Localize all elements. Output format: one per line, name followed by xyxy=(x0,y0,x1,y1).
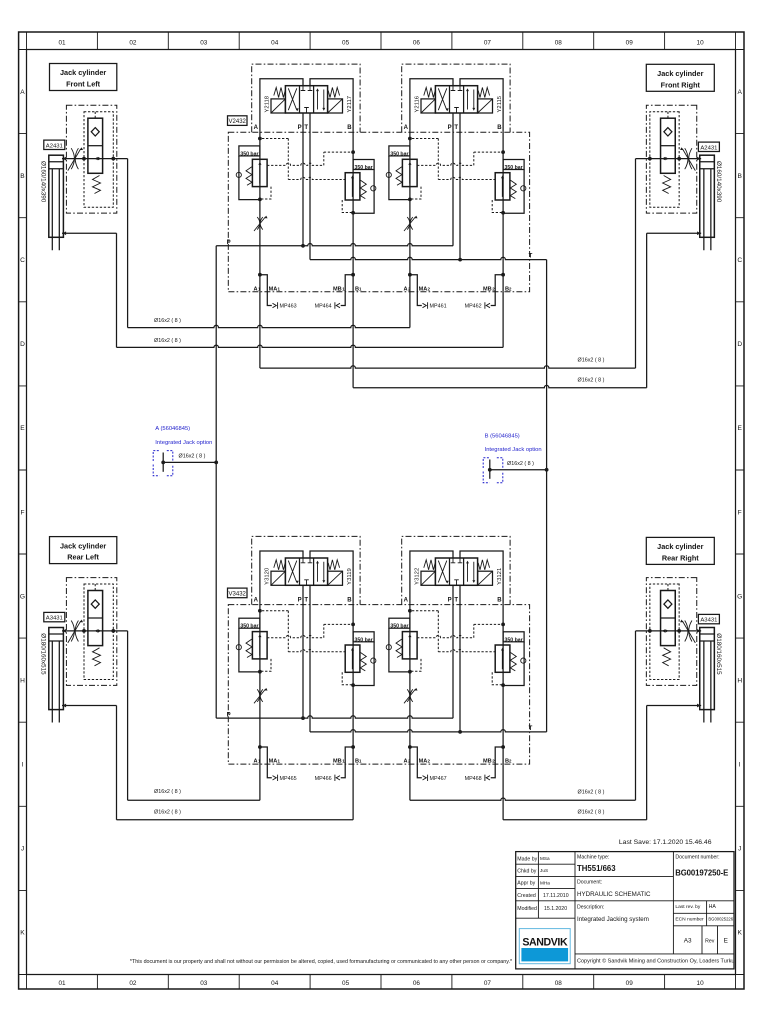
wire: A1 port drop rear xyxy=(259,764,261,800)
svg-text:BG00197250-E: BG00197250-E xyxy=(675,869,728,878)
svg-text:A: A xyxy=(254,125,259,131)
title block table xyxy=(516,852,734,969)
svg-text:*This document is our property: *This document is our property and shall… xyxy=(130,959,512,965)
svg-text:Ø180/160x515: Ø180/160x515 xyxy=(40,633,47,675)
svg-text:06: 06 xyxy=(413,980,421,987)
svg-text:Rear Right: Rear Right xyxy=(662,554,699,563)
wire: option A connection xyxy=(163,461,216,463)
svg-text:A: A xyxy=(253,286,257,292)
svg-text:HYDRAULIC SCHEMATIC: HYDRAULIC SCHEMATIC xyxy=(577,891,651,898)
valve section 2 front xyxy=(386,64,526,309)
svg-text:T: T xyxy=(529,726,533,732)
wire: line B1 to rear-left cylinder rod xyxy=(117,819,354,821)
svg-text:V2432: V2432 xyxy=(229,119,247,125)
svg-text:Jack cylinder: Jack cylinder xyxy=(657,69,703,78)
svg-text:01: 01 xyxy=(58,39,66,46)
svg-text:Y3120: Y3120 xyxy=(265,567,271,585)
svg-text:F: F xyxy=(20,509,24,516)
SANDVIK logo xyxy=(519,929,570,964)
svg-text:MP465: MP465 xyxy=(280,776,297,782)
svg-text:A2431: A2431 xyxy=(700,145,717,151)
svg-text:03: 03 xyxy=(200,39,208,46)
svg-text:A3431: A3431 xyxy=(700,618,717,624)
svg-text:350 bar: 350 bar xyxy=(390,151,408,157)
title box front left xyxy=(50,64,117,91)
wire: line B2 to rear-right cylinder rod xyxy=(503,819,647,821)
wire: P supply vertical xyxy=(215,246,217,718)
svg-text:K: K xyxy=(737,930,742,937)
svg-text:JuS: JuS xyxy=(540,868,548,873)
svg-text:03: 03 xyxy=(200,980,208,987)
svg-text:G: G xyxy=(737,593,742,600)
T manifold rear xyxy=(310,730,547,732)
svg-text:MB: MB xyxy=(483,286,492,292)
valve block enclosure front xyxy=(228,132,529,291)
svg-text:B: B xyxy=(20,173,25,180)
label A3431 rear right xyxy=(698,614,719,623)
svg-text:MB: MB xyxy=(333,759,342,765)
label A2431 front right xyxy=(698,142,719,151)
svg-text:04: 04 xyxy=(271,980,279,987)
svg-text:G: G xyxy=(20,593,25,600)
svg-text:MP467: MP467 xyxy=(430,776,447,782)
svg-text:Front Left: Front Left xyxy=(66,80,101,89)
svg-text:Copyright © Sandvik Mining and: Copyright © Sandvik Mining and Construct… xyxy=(577,958,734,965)
svg-text:Ø16x2 ( 8 ): Ø16x2 ( 8 ) xyxy=(154,338,181,344)
svg-text:T: T xyxy=(304,125,308,131)
svg-text:350 bar: 350 bar xyxy=(505,165,523,171)
wire: front-right piston riser xyxy=(635,159,637,369)
svg-text:Jack cylinder: Jack cylinder xyxy=(60,68,106,77)
wire: line A2 to rear-right cylinder xyxy=(410,798,636,800)
wire: line A2 to front-left cylinder xyxy=(128,325,410,327)
svg-text:A (56046845): A (56046845) xyxy=(155,426,190,432)
label A3431 rear left xyxy=(44,612,65,621)
svg-text:I: I xyxy=(22,762,24,769)
svg-text:I: I xyxy=(739,762,741,769)
svg-text:K: K xyxy=(20,930,25,937)
svg-text:Y3119: Y3119 xyxy=(347,568,353,585)
valve block enclosure rear xyxy=(228,605,529,765)
svg-text:MA: MA xyxy=(419,759,428,765)
valve section 1 rear xyxy=(236,536,376,781)
svg-text:A: A xyxy=(403,759,407,765)
svg-text:B: B xyxy=(497,125,502,131)
svg-text:J: J xyxy=(21,846,24,853)
svg-text:Ø16x2 ( 8 ): Ø16x2 ( 8 ) xyxy=(578,378,605,384)
svg-text:P: P xyxy=(298,125,302,131)
svg-text:T: T xyxy=(304,597,308,603)
svg-text:ECN number: ECN number xyxy=(675,917,704,923)
svg-text:04: 04 xyxy=(271,39,279,46)
svg-text:01: 01 xyxy=(58,980,66,987)
svg-text:10: 10 xyxy=(697,39,705,46)
svg-text:Y3122: Y3122 xyxy=(415,568,421,585)
svg-text:D: D xyxy=(20,341,25,348)
label V3432 xyxy=(228,588,248,598)
svg-text:Ø16x2 ( 8 ): Ø16x2 ( 8 ) xyxy=(578,789,605,795)
wire: B2 port drop rear xyxy=(502,764,504,820)
svg-text:SANDVIK: SANDVIK xyxy=(522,937,568,949)
svg-text:MP464: MP464 xyxy=(315,304,332,310)
valve section 1 front xyxy=(236,64,376,309)
svg-text:Jack cylinder: Jack cylinder xyxy=(60,541,106,550)
svg-text:J: J xyxy=(738,846,741,853)
wire: line B2 to front-left cylinder rod xyxy=(117,345,504,347)
svg-text:350 bar: 350 bar xyxy=(355,165,373,171)
svg-text:A3: A3 xyxy=(684,938,692,945)
svg-text:Machine type:: Machine type: xyxy=(577,855,609,861)
svg-text:Y2115: Y2115 xyxy=(497,95,503,112)
title box front right xyxy=(646,64,714,91)
wire: front-right rod riser xyxy=(646,233,648,388)
wire: front-left piston riser xyxy=(127,159,129,328)
svg-text:Document number:: Document number: xyxy=(675,855,719,861)
svg-text:Made by: Made by xyxy=(517,856,537,862)
svg-text:Rev: Rev xyxy=(705,939,715,945)
svg-text:P: P xyxy=(298,597,302,603)
svg-text:A: A xyxy=(737,89,742,96)
svg-text:T: T xyxy=(454,597,458,603)
svg-text:Last Save: 17.1.2020 15.46.46: Last Save: 17.1.2020 15.46.46 xyxy=(619,839,712,846)
wire: A2 port drop rear xyxy=(409,764,411,800)
wire: rear-left rod riser xyxy=(116,706,118,820)
svg-text:MHa: MHa xyxy=(540,880,550,885)
jack cylinder rear right A3431 xyxy=(636,578,715,723)
svg-text:Ø16x2 ( 8 ): Ø16x2 ( 8 ) xyxy=(154,789,181,795)
svg-text:Ø16x2 ( 8 ): Ø16x2 ( 8 ) xyxy=(154,809,181,815)
jack cylinder front right A2431 xyxy=(636,105,715,250)
svg-text:08: 08 xyxy=(555,39,563,46)
wire: T return vertical xyxy=(546,260,548,732)
svg-text:05: 05 xyxy=(342,980,350,987)
title box rear left xyxy=(50,537,117,564)
svg-text:350 bar: 350 bar xyxy=(355,637,373,643)
svg-text:T: T xyxy=(529,254,533,260)
svg-text:B (56046845): B (56046845) xyxy=(485,433,520,439)
svg-text:P: P xyxy=(227,240,231,246)
svg-text:09: 09 xyxy=(626,39,634,46)
svg-text:A: A xyxy=(404,125,409,131)
svg-text:A3431: A3431 xyxy=(46,616,63,622)
svg-text:MSa: MSa xyxy=(540,856,550,861)
svg-text:Modified: Modified xyxy=(517,906,537,912)
T manifold front xyxy=(310,257,547,259)
svg-text:P: P xyxy=(227,712,231,718)
svg-text:Ø16x2 ( 8 ): Ø16x2 ( 8 ) xyxy=(154,318,181,324)
svg-text:B: B xyxy=(737,173,742,180)
svg-text:Integrated Jack option: Integrated Jack option xyxy=(155,440,212,446)
svg-text:Ø160/140x390: Ø160/140x390 xyxy=(40,161,47,203)
wire: front-left rod riser xyxy=(116,233,118,347)
svg-text:Integrated Jacking system: Integrated Jacking system xyxy=(577,916,649,923)
jack cylinder front left A2431 xyxy=(49,105,128,250)
svg-text:HA: HA xyxy=(709,904,717,910)
svg-text:15.1.2020: 15.1.2020 xyxy=(544,906,567,912)
svg-text:Description:: Description: xyxy=(577,905,604,911)
title box rear right xyxy=(646,537,714,564)
wire: A2 port drop front xyxy=(409,292,411,328)
svg-text:B: B xyxy=(347,125,352,131)
svg-text:MP466: MP466 xyxy=(315,776,332,782)
svg-text:E: E xyxy=(737,425,742,432)
svg-text:P: P xyxy=(448,125,452,131)
svg-text:Ø16x2 ( 8 ): Ø16x2 ( 8 ) xyxy=(578,358,605,364)
svg-text:Front Right: Front Right xyxy=(661,80,701,89)
svg-text:H: H xyxy=(20,677,25,684)
svg-text:Document:: Document: xyxy=(577,879,602,885)
svg-text:Appr by: Appr by xyxy=(517,881,535,887)
svg-text:Y2118: Y2118 xyxy=(265,95,271,112)
wire: line A1 to front-right cylinder xyxy=(260,366,636,368)
svg-text:Created: Created xyxy=(517,893,536,899)
svg-text:A: A xyxy=(253,759,257,765)
svg-text:10: 10 xyxy=(697,980,705,987)
svg-text:MP461: MP461 xyxy=(430,304,447,310)
svg-text:07: 07 xyxy=(484,39,492,46)
svg-text:Y2117: Y2117 xyxy=(347,96,353,113)
svg-text:C: C xyxy=(737,257,742,264)
svg-text:350 bar: 350 bar xyxy=(240,151,258,157)
svg-text:Last rev. by: Last rev. by xyxy=(675,904,700,910)
svg-text:Ø16x2 ( 8 ): Ø16x2 ( 8 ) xyxy=(507,461,534,467)
svg-text:05: 05 xyxy=(342,39,350,46)
svg-text:P: P xyxy=(448,597,452,603)
svg-text:09: 09 xyxy=(626,980,634,987)
svg-text:F: F xyxy=(738,509,742,516)
wire: line B1 to front-right cylinder rod xyxy=(353,385,647,387)
svg-text:E: E xyxy=(724,938,728,945)
svg-text:MB: MB xyxy=(483,759,492,765)
label V2432 xyxy=(228,116,248,126)
label A2431 front left xyxy=(44,140,65,149)
svg-text:Ø180/160x515: Ø180/160x515 xyxy=(715,633,722,675)
svg-text:MA: MA xyxy=(269,286,278,292)
wire: line A1 to rear-left cylinder xyxy=(128,799,260,801)
svg-text:T: T xyxy=(454,125,458,131)
wire: A1 port drop front xyxy=(259,292,261,368)
svg-text:MP463: MP463 xyxy=(280,304,297,310)
svg-text:Rear Left: Rear Left xyxy=(67,553,99,562)
svg-text:V3432: V3432 xyxy=(229,591,247,597)
valve section 2 rear xyxy=(386,536,526,781)
svg-text:B: B xyxy=(497,597,502,603)
svg-text:A: A xyxy=(404,597,409,603)
P manifold front xyxy=(216,244,453,246)
wire: B1 port drop front xyxy=(352,292,354,388)
svg-text:350 bar: 350 bar xyxy=(505,637,523,643)
svg-text:C: C xyxy=(20,257,25,264)
svg-text:E: E xyxy=(20,425,25,432)
svg-text:A: A xyxy=(20,89,25,96)
wire: B1 port drop rear xyxy=(352,764,354,820)
svg-text:A2431: A2431 xyxy=(46,143,63,149)
svg-text:02: 02 xyxy=(129,39,137,46)
svg-text:H: H xyxy=(737,677,742,684)
wire: rear-left piston riser xyxy=(127,631,129,800)
svg-text:D: D xyxy=(737,341,742,348)
svg-text:MP468: MP468 xyxy=(465,776,482,782)
svg-text:Ø160/140x390: Ø160/140x390 xyxy=(715,161,722,203)
svg-text:MA: MA xyxy=(419,286,428,292)
svg-text:08: 08 xyxy=(555,980,563,987)
P manifold rear xyxy=(216,716,453,718)
wire: rear-right rod riser xyxy=(646,706,648,820)
svg-text:07: 07 xyxy=(484,980,492,987)
svg-text:02: 02 xyxy=(129,980,137,987)
svg-text:A: A xyxy=(254,597,259,603)
svg-text:A: A xyxy=(403,286,407,292)
svg-text:Y2116: Y2116 xyxy=(415,95,421,112)
wire: B2 port drop front xyxy=(502,292,504,348)
jack cylinder rear left A3431 xyxy=(49,578,128,723)
svg-text:Jack cylinder: Jack cylinder xyxy=(657,542,703,551)
svg-text:17.11.2010: 17.11.2010 xyxy=(543,893,569,899)
svg-text:MB: MB xyxy=(333,286,342,292)
wire: option B connection xyxy=(490,469,547,471)
wire: rear-right piston riser xyxy=(635,631,637,800)
svg-text:MA: MA xyxy=(269,759,278,765)
svg-text:Integrated Jack option: Integrated Jack option xyxy=(485,447,542,453)
svg-text:350 bar: 350 bar xyxy=(390,624,408,630)
svg-text:TH551/663: TH551/663 xyxy=(577,864,616,873)
svg-text:Ø16x2 ( 8 ): Ø16x2 ( 8 ) xyxy=(179,454,206,460)
svg-text:Y3121: Y3121 xyxy=(497,568,503,585)
svg-text:350 bar: 350 bar xyxy=(240,624,258,630)
svg-text:B: B xyxy=(347,597,352,603)
svg-text:Ø16x2 ( 8 ): Ø16x2 ( 8 ) xyxy=(578,810,605,816)
svg-text:MP462: MP462 xyxy=(465,304,482,310)
svg-text:BG00025226: BG00025226 xyxy=(708,916,733,921)
svg-text:06: 06 xyxy=(413,39,421,46)
svg-text:Chkd by: Chkd by xyxy=(517,869,536,875)
